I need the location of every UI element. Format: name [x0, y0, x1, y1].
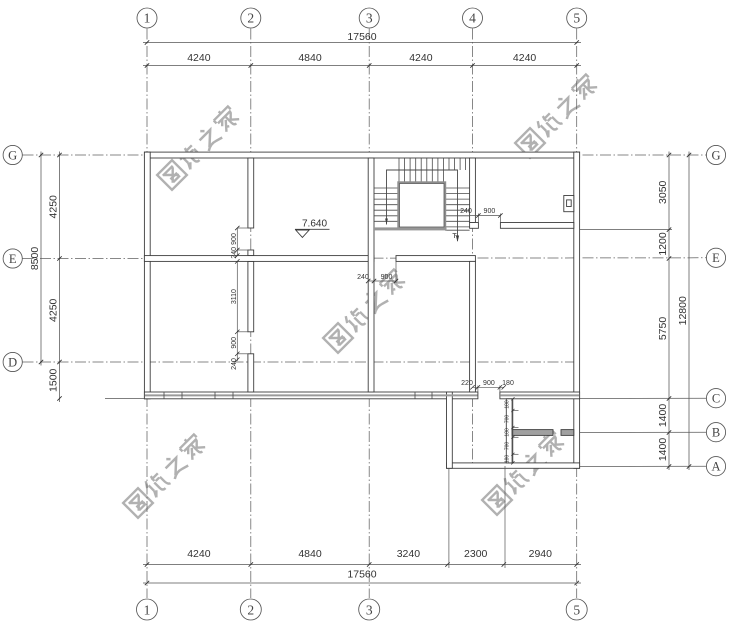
dimension top labels [187, 31, 536, 64]
dimension top ticks [145, 40, 579, 67]
grid line E horizontal [23, 257, 707, 260]
wall outer left (grid 1) [144, 152, 150, 399]
svg-text:E: E [712, 251, 720, 265]
grid bubble 1 bottom [137, 599, 158, 620]
svg-text:3240: 3240 [397, 548, 421, 560]
grid line C stub to circle [579, 397, 706, 399]
svg-text:4840: 4840 [298, 52, 322, 64]
svg-text:240: 240 [460, 208, 472, 215]
stair walk-line down arrow [456, 236, 459, 243]
svg-text:240: 240 [231, 358, 238, 370]
dimension left labels [29, 195, 60, 392]
wall bottom main C east segment [500, 392, 580, 399]
stair landing edge bar [374, 227, 447, 230]
svg-text:4240: 4240 [409, 52, 433, 64]
door dim grid2 upper [237, 228, 248, 256]
grid bubble 5 top [567, 8, 587, 28]
grid bubble C right [706, 389, 725, 408]
wall grid2 upper segment [248, 158, 254, 228]
door dim grid2 lower [237, 261, 248, 361]
grid bubble 5 bottom [566, 599, 587, 620]
watermark bottom-right [481, 429, 567, 515]
wall extension bottom (grid A) [447, 463, 580, 468]
grid bubble A right [706, 457, 725, 476]
svg-text:4240: 4240 [187, 52, 211, 64]
svg-text:5: 5 [573, 11, 580, 26]
door dim E wall [368, 262, 396, 284]
svg-text:900: 900 [483, 380, 495, 387]
grid line 4 vertical [472, 29, 474, 468]
grid bubble 1 top [137, 8, 157, 28]
svg-text:E: E [9, 252, 17, 266]
svg-text:3050: 3050 [657, 180, 669, 204]
dimension right chain line [580, 152, 689, 471]
grid line G horizontal [23, 154, 707, 156]
wall grid2 lower segment [248, 354, 254, 392]
grid line 2 vertical [250, 29, 252, 599]
svg-text:1500: 1500 [48, 368, 60, 392]
svg-text:900: 900 [231, 233, 238, 245]
grid bubble B right [706, 423, 725, 442]
svg-text:A: A [711, 460, 720, 474]
svg-text:180: 180 [504, 400, 510, 409]
svg-text:1400: 1400 [657, 404, 669, 428]
svg-text:4: 4 [469, 11, 476, 26]
grid line D horizontal [23, 361, 579, 363]
grid bubble D left [3, 352, 22, 371]
svg-text:D: D [8, 355, 17, 369]
grid bubble 3 top [359, 8, 379, 28]
grid bubble 4 top [463, 8, 483, 28]
svg-text:12800: 12800 [677, 296, 689, 325]
svg-text:4240: 4240 [187, 548, 211, 560]
grid line 1 vertical [146, 29, 148, 599]
svg-text:4250: 4250 [48, 298, 60, 322]
svg-text:3: 3 [366, 11, 373, 26]
stair railing [387, 170, 458, 241]
wall grid2 door stub [248, 250, 254, 256]
wall grid4 lower [470, 261, 476, 392]
wall below stair west segment [470, 223, 479, 229]
watermark top-left [156, 104, 242, 190]
wall B east segment (gray fill) [561, 430, 574, 436]
wall outer top (grid G) [144, 152, 579, 158]
wall below stair east segment [500, 223, 573, 229]
svg-text:1400: 1400 [657, 438, 669, 462]
svg-text:G: G [8, 148, 17, 162]
watermark center [322, 267, 408, 353]
grid line B stub to circle [579, 431, 706, 433]
watermark top-right [514, 72, 600, 158]
svg-text:700: 700 [504, 415, 510, 424]
flue niche outer box on right wall [564, 196, 574, 212]
svg-text:240: 240 [231, 247, 238, 259]
grid bubble G right [706, 145, 725, 164]
wall grid3 [368, 158, 374, 392]
stair well void opening [399, 183, 446, 229]
grid line 5 vertical [576, 29, 578, 599]
door dim C wall [473, 386, 504, 393]
wall E west segment [144, 256, 374, 262]
watermark bottom-left [122, 432, 208, 518]
svg-text:4250: 4250 [48, 195, 60, 219]
svg-text:7.640: 7.640 [302, 219, 327, 230]
svg-text:2940: 2940 [529, 548, 553, 560]
level marker 7.640 [295, 219, 330, 238]
svg-text:1200: 1200 [657, 232, 669, 256]
svg-text:180: 180 [504, 428, 510, 437]
svg-text:8500: 8500 [29, 247, 41, 271]
grid bubble E right [706, 248, 725, 267]
dimension right labels [657, 180, 689, 461]
svg-text:C: C [712, 392, 720, 406]
window jamb ticks in C wall [164, 392, 432, 399]
grid line A stub to circle [579, 465, 706, 467]
dimension left chain line [41, 152, 144, 403]
wall extension divider vertical [506, 399, 512, 463]
svg-text:17560: 17560 [347, 31, 376, 43]
grid bubble E left [3, 249, 22, 268]
svg-text:17560: 17560 [347, 569, 376, 581]
dimension right ticks [667, 153, 691, 469]
svg-text:1: 1 [144, 11, 151, 26]
grid bubble 2 bottom [240, 599, 261, 620]
svg-text:900: 900 [484, 208, 496, 215]
stair left flight treads [374, 188, 399, 221]
svg-text:5750: 5750 [657, 317, 669, 341]
wall E east segment [396, 256, 475, 262]
svg-text:1: 1 [144, 602, 151, 617]
grid bubble 2 top [241, 8, 261, 28]
svg-text:4240: 4240 [513, 52, 537, 64]
wall bottom main C west segment [144, 392, 478, 399]
interior dim chain extension rooms [513, 399, 519, 463]
grid line 3 vertical [368, 29, 370, 599]
stair top flight treads [399, 158, 443, 183]
dimension top chain line [143, 43, 581, 66]
svg-text:2: 2 [247, 11, 254, 26]
svg-text:180: 180 [502, 380, 514, 387]
door dim below stair [470, 214, 501, 223]
svg-text:700: 700 [504, 442, 510, 451]
wall B west segment (gray fill) [512, 430, 553, 436]
dimension bottom labels [187, 548, 552, 581]
dimension bottom extension lines [449, 466, 505, 568]
svg-text:220: 220 [461, 380, 473, 387]
svg-text:4840: 4840 [298, 548, 322, 560]
stair walk-line start arrow [385, 219, 388, 225]
wall grid2 middle segment [248, 261, 254, 331]
svg-text:900: 900 [231, 337, 238, 349]
svg-text:900: 900 [381, 274, 393, 281]
svg-text:180: 180 [504, 455, 510, 464]
wall grid4 upper (stair east) [470, 158, 476, 223]
flue niche inner box [567, 200, 572, 207]
stair top-right short treads [449, 158, 466, 170]
svg-text:2300: 2300 [464, 548, 488, 560]
down label mark [453, 234, 457, 239]
svg-text:B: B [712, 426, 720, 440]
dimension bottom chain line [143, 565, 581, 584]
svg-text:2: 2 [247, 602, 254, 617]
wall outer right (grid 5) [574, 152, 580, 468]
svg-text:5: 5 [573, 602, 580, 617]
svg-text:3: 3 [366, 602, 373, 617]
dimension bottom ticks [145, 562, 579, 585]
wall C gray core lines [145, 394, 579, 396]
grid bubble 3 bottom [359, 599, 380, 620]
svg-text:3110: 3110 [231, 289, 238, 304]
svg-text:240: 240 [357, 274, 369, 281]
dimension left ticks [39, 153, 62, 401]
grid bubble G left [3, 145, 22, 164]
svg-text:G: G [711, 148, 720, 162]
stair right flight treads [445, 188, 470, 230]
wall extension left [447, 392, 453, 468]
